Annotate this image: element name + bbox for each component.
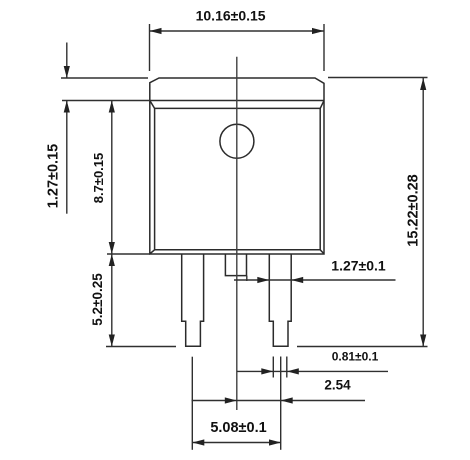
tab bottom edge line xyxy=(150,100,324,102)
chamfer top-left xyxy=(150,101,154,108)
arrow 15.22 down xyxy=(420,335,426,347)
svg-text:2.54: 2.54 xyxy=(324,378,351,393)
arrow 15.22 up xyxy=(420,78,426,90)
arrow 1.27 tab up xyxy=(64,101,70,113)
svg-text:15.22±0.28: 15.22±0.28 xyxy=(405,174,421,246)
stub edge extension xyxy=(246,276,248,281)
dim 5.2 dimension line xyxy=(111,254,113,347)
dim 0.81 extension line right xyxy=(286,357,288,378)
svg-text:5.08±0.1: 5.08±0.1 xyxy=(210,420,266,436)
arrow 0.81 right xyxy=(261,368,273,374)
right lead outline xyxy=(269,254,291,346)
dim 15.22 extension line top xyxy=(328,77,428,79)
tab mounting hole xyxy=(220,124,254,158)
dim 1.27 lead dimension line xyxy=(234,279,396,281)
dim 2.54 dimension line xyxy=(192,400,366,402)
left lead outline xyxy=(182,254,204,346)
svg-text:5.2±0.25: 5.2±0.25 xyxy=(90,273,105,326)
dim 15.22 extension line bottom xyxy=(297,346,428,348)
arrow 1.27 lead right xyxy=(257,277,269,283)
arrow 8.7 down xyxy=(109,242,115,254)
body bottom extension to left xyxy=(107,253,150,255)
middle stub lead outline xyxy=(225,254,246,276)
svg-text:1.27±0.1: 1.27±0.1 xyxy=(331,258,386,274)
svg-text:0.81±0.1: 0.81±0.1 xyxy=(332,350,379,364)
dim 8.7 dimension line xyxy=(111,101,113,255)
dim 0.81 dimension line xyxy=(237,370,388,372)
dim 1.27 tab leader above xyxy=(66,43,68,79)
arrow 1.27 tab down xyxy=(64,66,70,78)
body front face inner rectangle xyxy=(155,108,321,249)
arrow 5.08 right xyxy=(269,439,281,445)
left lead center extension line xyxy=(191,357,193,450)
arrow 10.16 right xyxy=(312,28,324,34)
dim 1.27 tab extension line lower xyxy=(62,100,150,102)
chamfer bottom-left xyxy=(150,250,154,254)
dim 0.81 extension line left xyxy=(272,357,274,378)
arrow 2.54 left xyxy=(281,397,293,403)
arrow 5.2 up xyxy=(109,254,115,266)
vertical centerline xyxy=(236,57,238,410)
svg-text:1.27±0.15: 1.27±0.15 xyxy=(46,144,62,208)
dim 10.16 dimension line xyxy=(150,30,325,32)
dim 10.16 extension line right xyxy=(323,24,325,71)
dim 5.08 dimension line xyxy=(192,442,281,444)
right lead center extension line xyxy=(280,357,282,450)
arrow 0.81 left xyxy=(287,368,299,374)
chamfer top-right xyxy=(320,101,324,108)
dim 10.16 extension line left xyxy=(149,24,151,71)
chamfer bottom-right xyxy=(320,250,324,254)
arrow 2.54 right xyxy=(225,397,237,403)
svg-text:8.7±0.15: 8.7±0.15 xyxy=(91,153,106,204)
package body outer outline (tab + molded body) xyxy=(150,78,324,254)
arrow 5.2 down xyxy=(109,335,115,347)
arrow 5.08 left xyxy=(192,439,204,445)
dim 1.27 tab leader below xyxy=(66,101,68,214)
arrow 8.7 up xyxy=(109,101,115,113)
arrow 1.27 lead left xyxy=(291,277,303,283)
dim 1.27 tab extension line upper xyxy=(61,77,148,79)
dim 15.22 dimension line xyxy=(422,78,424,347)
svg-text:10.16±0.15: 10.16±0.15 xyxy=(196,8,266,24)
arrow 10.16 left xyxy=(150,28,162,34)
lead tip extension line left xyxy=(106,346,176,348)
